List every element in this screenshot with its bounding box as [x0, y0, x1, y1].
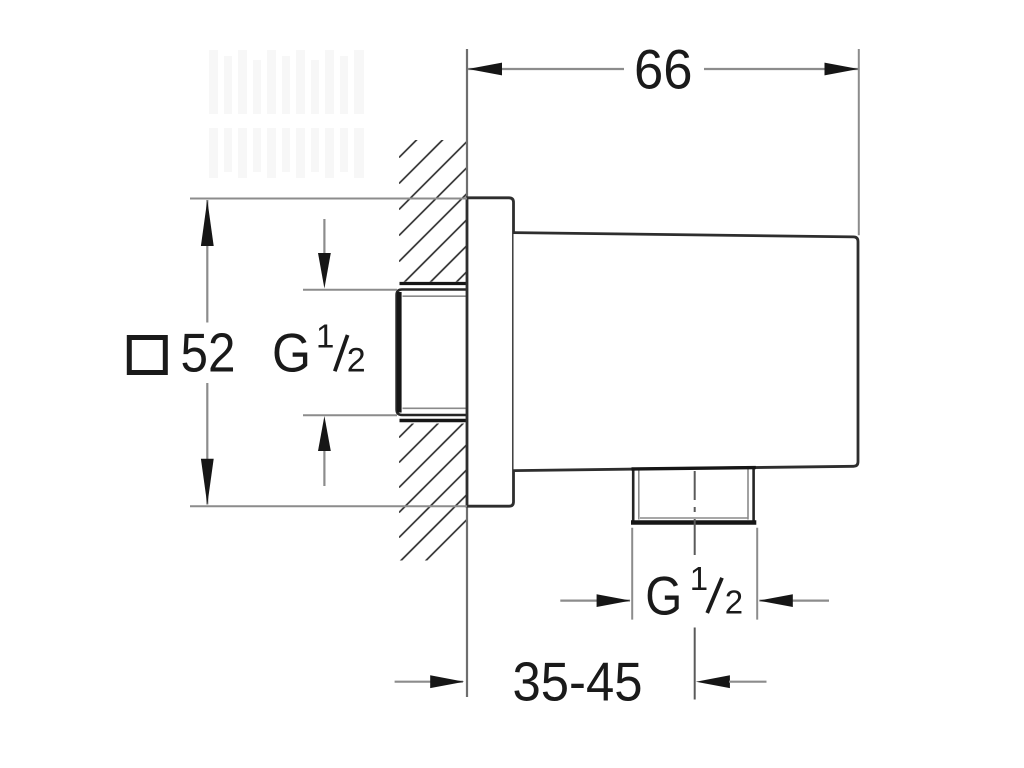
- pipe G1/2 dim: right extension line: [756, 528, 758, 620]
- wall hole bottom edge (thick): [400, 419, 467, 422]
- fitting thick left edge: [397, 292, 402, 413]
- inner G1/2 dim: lower extension line: [303, 414, 397, 416]
- inner G1/2 dim: up arrow tail: [323, 449, 325, 486]
- dimension 52: top extension line: [190, 198, 467, 200]
- pipe thread line left: [638, 470, 640, 520]
- inner G1/2 dim: down arrow tail: [323, 219, 325, 255]
- dimension 35-45: right tail line: [729, 681, 767, 683]
- wall hole top edge (thick): [400, 282, 467, 285]
- svg-text:35-45: 35-45: [513, 651, 643, 713]
- faint background watermark: [209, 50, 364, 178]
- pipe G1/2 dim: right arrow: [759, 594, 793, 607]
- dimension 66: right arrow: [825, 63, 859, 76]
- pipe centerline: [694, 471, 696, 555]
- svg-text:2: 2: [347, 342, 366, 380]
- pipe G1/2 dim: right tail line: [759, 599, 829, 601]
- outlet pipe stub: [634, 469, 754, 523]
- fitting inner top line: [403, 295, 468, 297]
- pipe G1/2 label: fraction slash: [707, 578, 722, 613]
- wall hatching top section: [399, 124, 615, 340]
- dimension 52: down arrow: [201, 459, 214, 505]
- svg-text:G: G: [272, 322, 311, 384]
- pipe left outer edge: [632, 470, 635, 523]
- pipe inner bottom line: [640, 517, 748, 519]
- flange plate: [467, 198, 514, 506]
- svg-text:66: 66: [634, 38, 693, 101]
- G1/2 square union fitting outline: [397, 290, 468, 416]
- dimension 52: up arrow: [201, 200, 214, 246]
- inner G1/2 dim: upper extension line: [303, 289, 397, 291]
- inner G1/2 label: fraction slash: [335, 335, 348, 371]
- dimension 66: line right part: [704, 68, 859, 70]
- inner G1/2 dim: up arrow: [318, 416, 331, 451]
- dimension 35-45: left arrow: [430, 675, 464, 688]
- svg-text:1: 1: [690, 560, 708, 597]
- dimension 52: vertical dimension line: [206, 200, 208, 323]
- pipe G1/2 dim: left arrow: [597, 594, 631, 607]
- pipe G1/2 dim: left extension line: [631, 528, 633, 620]
- dimension 66: left arrow: [468, 63, 502, 76]
- pipe right outer edge: [752, 468, 755, 523]
- wall hatching bottom section: [399, 357, 630, 588]
- fitting inner bottom line: [403, 407, 468, 409]
- wall face line: [466, 49, 468, 697]
- pipe shoulder thick segment: [632, 468, 756, 469]
- pipe bottom thick edge: [631, 520, 756, 525]
- dimension 66: line left part: [468, 68, 624, 70]
- svg-text:G: G: [645, 564, 682, 626]
- dimension 52: bottom extension line: [190, 505, 467, 507]
- svg-text:1: 1: [316, 318, 334, 355]
- square symbol: [129, 338, 165, 373]
- dimension 66: right extension line: [858, 49, 860, 235]
- pipe thread line right: [747, 469, 749, 520]
- dimension 35-45: right arrow: [696, 675, 730, 688]
- dimension 35-45: left tail line: [395, 681, 463, 683]
- inner G1/2 dim: down arrow: [318, 253, 331, 289]
- svg-text:52: 52: [181, 322, 236, 384]
- pipe G1/2 dim: left tail line: [560, 599, 630, 601]
- svg-text:2: 2: [725, 583, 743, 620]
- body (tapered block): [514, 233, 859, 471]
